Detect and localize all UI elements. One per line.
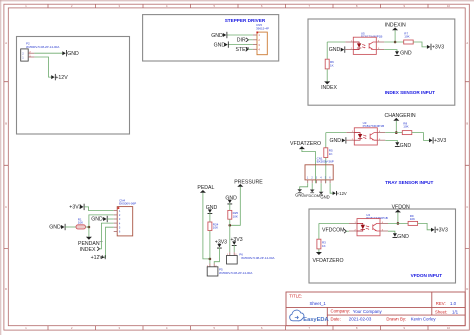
- connector P6 body: [227, 256, 238, 265]
- net flag PRESSURE glyph: [237, 184, 243, 187]
- resistor R9: [408, 221, 418, 225]
- svg-text:GND: GND: [206, 205, 218, 211]
- net flag VFDON glyph: [395, 210, 401, 213]
- svg-text:10K: 10K: [403, 124, 408, 128]
- svg-text:EasyEDA: EasyEDA: [303, 317, 328, 323]
- P6 pin stubs: [230, 252, 234, 255]
- junction pressure node: [229, 224, 232, 227]
- wire R25 to P6 pin1: [229, 219, 231, 252]
- resistor R7: [404, 40, 414, 44]
- top zone ticks: [48, 4, 428, 8]
- P5 pin stubs: [210, 264, 214, 267]
- wire GND to CN4 pin3: [107, 218, 114, 220]
- junction INDEXIN node: [394, 41, 397, 44]
- wire INDEXIN down: [394, 30, 396, 42]
- wire R24 to P5 pin1: [209, 231, 211, 264]
- svg-text:GND: GND: [400, 50, 412, 56]
- +12V flag (pendant): [101, 255, 105, 259]
- CN5 pin stubs: [253, 35, 257, 49]
- right zone ticks: [465, 82, 469, 249]
- svg-text:10K: 10K: [404, 34, 409, 38]
- wire junction down to PENDANT INDEX: [88, 227, 90, 237]
- +3V3 flag (vfdon): [431, 227, 436, 233]
- connector CN5 body: [257, 32, 267, 55]
- wire +3V3 to P5 pin2: [214, 248, 219, 264]
- svg-text:+3V3: +3V3: [69, 205, 81, 211]
- +12V flag (P2): [51, 74, 56, 80]
- wire VFDON down: [397, 212, 399, 223]
- wire P2 pin2 to GND: [34, 52, 62, 54]
- GND flag (pendant resistor): [61, 224, 66, 230]
- svg-text:1.0: 1.0: [450, 301, 457, 306]
- GND flag (pedal): [208, 209, 213, 214]
- wire GND to R25: [229, 203, 231, 210]
- junction pendant node: [88, 226, 91, 229]
- svg-text:Sheet:: Sheet:: [435, 310, 447, 315]
- net flag CHANGERIN glyph: [393, 118, 399, 121]
- wire R9 to +3V3: [418, 223, 431, 229]
- page edge left: [0, 0, 2, 335]
- svg-text:INDEX: INDEX: [321, 85, 337, 91]
- wire CN5 pin1: [227, 34, 253, 36]
- net label VFDCOM flag: [344, 229, 346, 233]
- junction CHANGERIN node: [395, 131, 398, 134]
- GND flag down (U5 pin3): [395, 51, 400, 56]
- title block horizontal divider 2: [327, 314, 465, 316]
- svg-text:VFDON INPUT: VFDON INPUT: [411, 273, 443, 278]
- svg-text:WJ500V-5.08-2P-14-00A: WJ500V-5.08-2P-14-00A: [219, 271, 252, 275]
- svg-text:WJ500V-5.08-2P-14-00A: WJ500V-5.08-2P-14-00A: [26, 45, 59, 49]
- CN4 pin stubs: [114, 211, 118, 232]
- net flag VFDATZERO glyph (tray): [299, 146, 305, 149]
- svg-text:A: A: [466, 41, 468, 45]
- GND flag (CN1 pin1): [297, 189, 302, 193]
- net label INDEX flag (pendant): [97, 247, 99, 251]
- GND flag (CN5 pin3): [224, 41, 229, 47]
- svg-text:1K: 1K: [330, 63, 334, 67]
- svg-text:Date:: Date:: [331, 316, 341, 321]
- svg-text:1K: 1K: [329, 152, 333, 156]
- GND flag (U5 pin2): [341, 46, 345, 52]
- resistor R6: [325, 59, 329, 69]
- svg-text:D: D: [5, 287, 7, 291]
- wire INDEX to CN4 pin4: [100, 223, 114, 249]
- net flag INDEX glyph: [324, 81, 330, 84]
- svg-text:+3V3: +3V3: [230, 237, 242, 243]
- svg-text:+12V: +12V: [55, 75, 68, 81]
- net flag PEDAL glyph: [200, 190, 206, 193]
- P5 pin numbers: [207, 265, 217, 267]
- junction pedal node: [209, 258, 212, 261]
- svg-text:INDEX SENSOR INPUT: INDEX SENSOR INPUT: [385, 90, 435, 95]
- wire U3 pin4 to R8: [385, 132, 402, 134]
- svg-text:10K: 10K: [78, 220, 83, 224]
- net label DIR flag: [246, 38, 248, 42]
- svg-text:VFDON: VFDON: [392, 204, 410, 210]
- wire U5 pin3 to GND: [384, 50, 397, 52]
- svg-text:TRAY SENSOR INPUT: TRAY SENSOR INPUT: [385, 180, 433, 185]
- wire GND to R1: [65, 226, 76, 228]
- wire U2 pin1 left: [319, 222, 349, 224]
- net flag VFDATZERO glyph (vfdon): [316, 252, 322, 255]
- bottom zone ticks: [48, 326, 428, 330]
- title block vertical divider REV column: [431, 292, 433, 315]
- svg-text:39615-4P: 39615-4P: [256, 26, 269, 30]
- svg-text:GND: GND: [67, 51, 79, 57]
- EasyEDA logo arrow: [295, 316, 298, 319]
- wire junction to CN4 pin2: [89, 215, 114, 227]
- net flag INDEXIN glyph: [392, 28, 398, 31]
- title block vertical divider logo cell: [326, 307, 328, 325]
- GND flag down (U2 pin3): [393, 233, 398, 238]
- +3V3 flag (index): [427, 44, 432, 50]
- junction VFDON node: [397, 222, 400, 225]
- wire VFDCOM to U2 pin2: [346, 230, 349, 232]
- svg-text:Sheet_1: Sheet_1: [310, 301, 327, 306]
- wire +3V3 to CN4 pin1: [84, 207, 114, 211]
- svg-text:STEP: STEP: [236, 47, 250, 53]
- U2 pin numbers: [355, 222, 384, 232]
- +12V flag (CN1 pin6): [333, 191, 337, 195]
- svg-text:D: D: [466, 287, 468, 291]
- wire VFDATZERO to CN1 pin3: [302, 149, 316, 183]
- wire R7 to +3V3: [413, 42, 427, 47]
- svg-text:Drawn By:: Drawn By:: [386, 317, 406, 322]
- wire U2 pin4 to R9: [388, 222, 408, 224]
- wire CN1 pin6 to +12V: [330, 183, 333, 193]
- svg-text:+3V3: +3V3: [434, 138, 446, 144]
- wire R8 to +3V3: [412, 133, 429, 141]
- resistor R8: [402, 131, 412, 135]
- svg-text:VFDCOM: VFDCOM: [304, 194, 320, 198]
- svg-text:EK500V-06P: EK500V-06P: [119, 201, 136, 205]
- wire CN5 pin4: [248, 48, 253, 50]
- optocoupler U2: [349, 219, 388, 236]
- svg-text:TITLE:: TITLE:: [289, 293, 302, 298]
- GND flag (P2): [62, 50, 67, 56]
- svg-text:GND: GND: [330, 138, 342, 144]
- svg-text:B: B: [466, 122, 468, 126]
- GND flag down (U3 pin3): [395, 142, 400, 147]
- U3 pin numbers: [352, 131, 381, 141]
- svg-text:+3V3: +3V3: [436, 228, 448, 234]
- connector P2 pin 1 stub: [28, 56, 34, 58]
- svg-text:GND: GND: [214, 42, 226, 48]
- connector P2 body: [21, 49, 29, 61]
- title block horizontal divider 1: [286, 306, 465, 308]
- GND flag (U3 pin2): [342, 137, 347, 143]
- wire U5 pin1 left: [327, 41, 345, 43]
- CN5 pin1 origin dot: [256, 32, 258, 34]
- wire CN1 pin4 to GND: [320, 183, 322, 192]
- svg-text:Your Company: Your Company: [353, 309, 383, 314]
- wire +3V3 to P6 pin2: [233, 245, 235, 252]
- EasyEDA logo cloud: [290, 310, 304, 321]
- wire R5 down to CN1 pin5: [325, 158, 327, 184]
- section box stepper driver: [143, 15, 279, 61]
- svg-text:GND: GND: [329, 47, 341, 53]
- resistor R24: [208, 222, 212, 231]
- svg-text:+12V: +12V: [91, 255, 104, 261]
- U5 pin numbers: [351, 40, 380, 50]
- svg-text:C: C: [5, 205, 7, 209]
- +3V3 flag (pressure): [232, 241, 237, 246]
- CN4 pin1 origin dot: [118, 207, 120, 209]
- svg-text:GND: GND: [320, 195, 329, 200]
- title block outer rect: [286, 292, 465, 326]
- resistor R1: [76, 225, 86, 229]
- svg-text:REV:: REV:: [436, 301, 446, 306]
- svg-text:2021-02-03: 2021-02-03: [349, 317, 372, 322]
- wire CN1 pin2 to VFDCOM: [311, 183, 313, 189]
- P6 pin numbers: [227, 254, 237, 256]
- wire R3 to VFDATZERO: [318, 249, 320, 252]
- svg-text:1/1: 1/1: [452, 310, 459, 315]
- wire CHANGERIN down: [395, 121, 397, 133]
- resistor R25: [228, 210, 232, 219]
- CN1 pin stubs: [308, 180, 330, 183]
- svg-text:10K: 10K: [213, 226, 218, 230]
- GND flag (CN1 pin4): [319, 192, 324, 196]
- wire U5 pin4 to R7: [384, 41, 403, 43]
- svg-text:GND: GND: [400, 143, 412, 149]
- optocoupler U3: [346, 128, 385, 145]
- wire CN5 pin2: [248, 39, 253, 41]
- svg-text:WJ500V-5.08-2P-14-00A: WJ500V-5.08-2P-14-00A: [241, 256, 274, 260]
- svg-text:INDEX: INDEX: [80, 247, 96, 253]
- svg-text:+12V: +12V: [337, 191, 347, 196]
- svg-text:GND: GND: [397, 234, 409, 240]
- connector P5 body: [207, 267, 218, 276]
- CN4 pin numbers: [119, 209, 121, 234]
- +3V3 flag (pedal): [217, 244, 222, 249]
- +3V3 flag (tray): [429, 137, 434, 143]
- svg-text:VFDATZERO: VFDATZERO: [290, 141, 321, 147]
- net flag PENDANT INDEX glyph: [86, 237, 92, 240]
- svg-text:EK500V-36P: EK500V-36P: [317, 159, 334, 163]
- svg-text:+3V3: +3V3: [432, 45, 444, 51]
- VFDCOM flag (CN1 pin2): [310, 190, 315, 194]
- wire U2 pin3 to GND: [388, 231, 395, 233]
- connector CN1 body: [305, 165, 333, 180]
- wire GND to R24: [209, 213, 211, 222]
- resistor R3: [317, 239, 321, 249]
- connector P2 pin 2 stub: [28, 52, 34, 54]
- svg-text:B: B: [5, 122, 7, 126]
- wire PRESSURE down to junction: [230, 187, 241, 226]
- wire down to R3: [318, 223, 320, 239]
- +3V3 flag (pendant): [80, 204, 85, 210]
- svg-text:A: A: [5, 41, 7, 45]
- svg-text:GND: GND: [211, 33, 223, 39]
- connector CN4 body: [117, 207, 133, 236]
- svg-text:DIR: DIR: [237, 38, 246, 44]
- GND flag (pressure): [227, 200, 232, 205]
- net label STEP flag: [246, 47, 248, 51]
- wire U3 pin1 left: [326, 132, 347, 134]
- CN1 pin numbers: [307, 177, 331, 180]
- wire R6 to INDEX: [326, 69, 328, 82]
- svg-text:C: C: [466, 205, 468, 209]
- wire CN1 pin1 to GND: [300, 183, 308, 189]
- wire R1 to junction: [86, 226, 89, 228]
- svg-text:Company:: Company:: [331, 309, 351, 314]
- optocoupler U5: [345, 37, 384, 54]
- svg-text:GND: GND: [91, 217, 103, 223]
- svg-text:VFDCOM: VFDCOM: [322, 228, 344, 234]
- GND flag (CN5 pin1): [223, 32, 228, 38]
- GND flag (CN4 pin3): [103, 216, 108, 222]
- resistor R5: [324, 148, 328, 158]
- wire down to R5: [325, 133, 327, 148]
- svg-text:Kevin Corley: Kevin Corley: [411, 317, 437, 322]
- svg-text:10K: 10K: [233, 214, 238, 218]
- section box index sensor input: [308, 19, 455, 105]
- wire down to R6: [326, 42, 328, 59]
- svg-text:VFDATZERO: VFDATZERO: [313, 258, 344, 264]
- svg-text:GND: GND: [49, 225, 61, 231]
- left zone ticks: [4, 82, 8, 249]
- svg-text:10K: 10K: [410, 217, 415, 221]
- svg-text:PRESSURE: PRESSURE: [234, 179, 263, 185]
- wire U3 pin3 to GND: [385, 140, 397, 142]
- section box P2: [17, 37, 130, 135]
- wire CN5 pin3: [228, 44, 253, 46]
- svg-text:1K: 1K: [322, 244, 326, 248]
- wire P2 pin1 to +12V: [34, 57, 51, 77]
- svg-text:CHANGERIN: CHANGERIN: [385, 113, 416, 119]
- wire CN4 pin5 to +12V: [103, 227, 114, 257]
- section box vfdon input: [309, 209, 456, 283]
- svg-text:PEDAL: PEDAL: [197, 185, 214, 191]
- page edge top: [0, 0, 474, 2]
- wire PEDAL down to junction: [203, 193, 210, 259]
